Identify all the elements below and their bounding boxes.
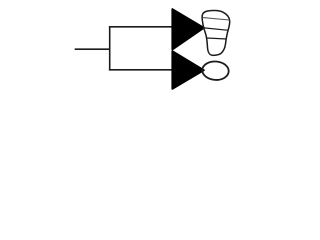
splitter vertical wire <box>109 26 111 70</box>
earphone / ear symbol outline (top output) <box>202 10 230 55</box>
earphone inner line 2 <box>204 28 228 30</box>
amplifier triangle (bottom) <box>172 51 203 89</box>
top branch wire <box>109 26 173 28</box>
loudspeaker ellipse (bottom output) <box>202 61 230 81</box>
input wire <box>75 48 111 50</box>
amplifier triangle (top) <box>172 9 203 49</box>
earphone inner line 1 <box>203 18 230 20</box>
bottom branch wire <box>109 69 173 71</box>
earphone inner line 3 <box>207 38 227 39</box>
